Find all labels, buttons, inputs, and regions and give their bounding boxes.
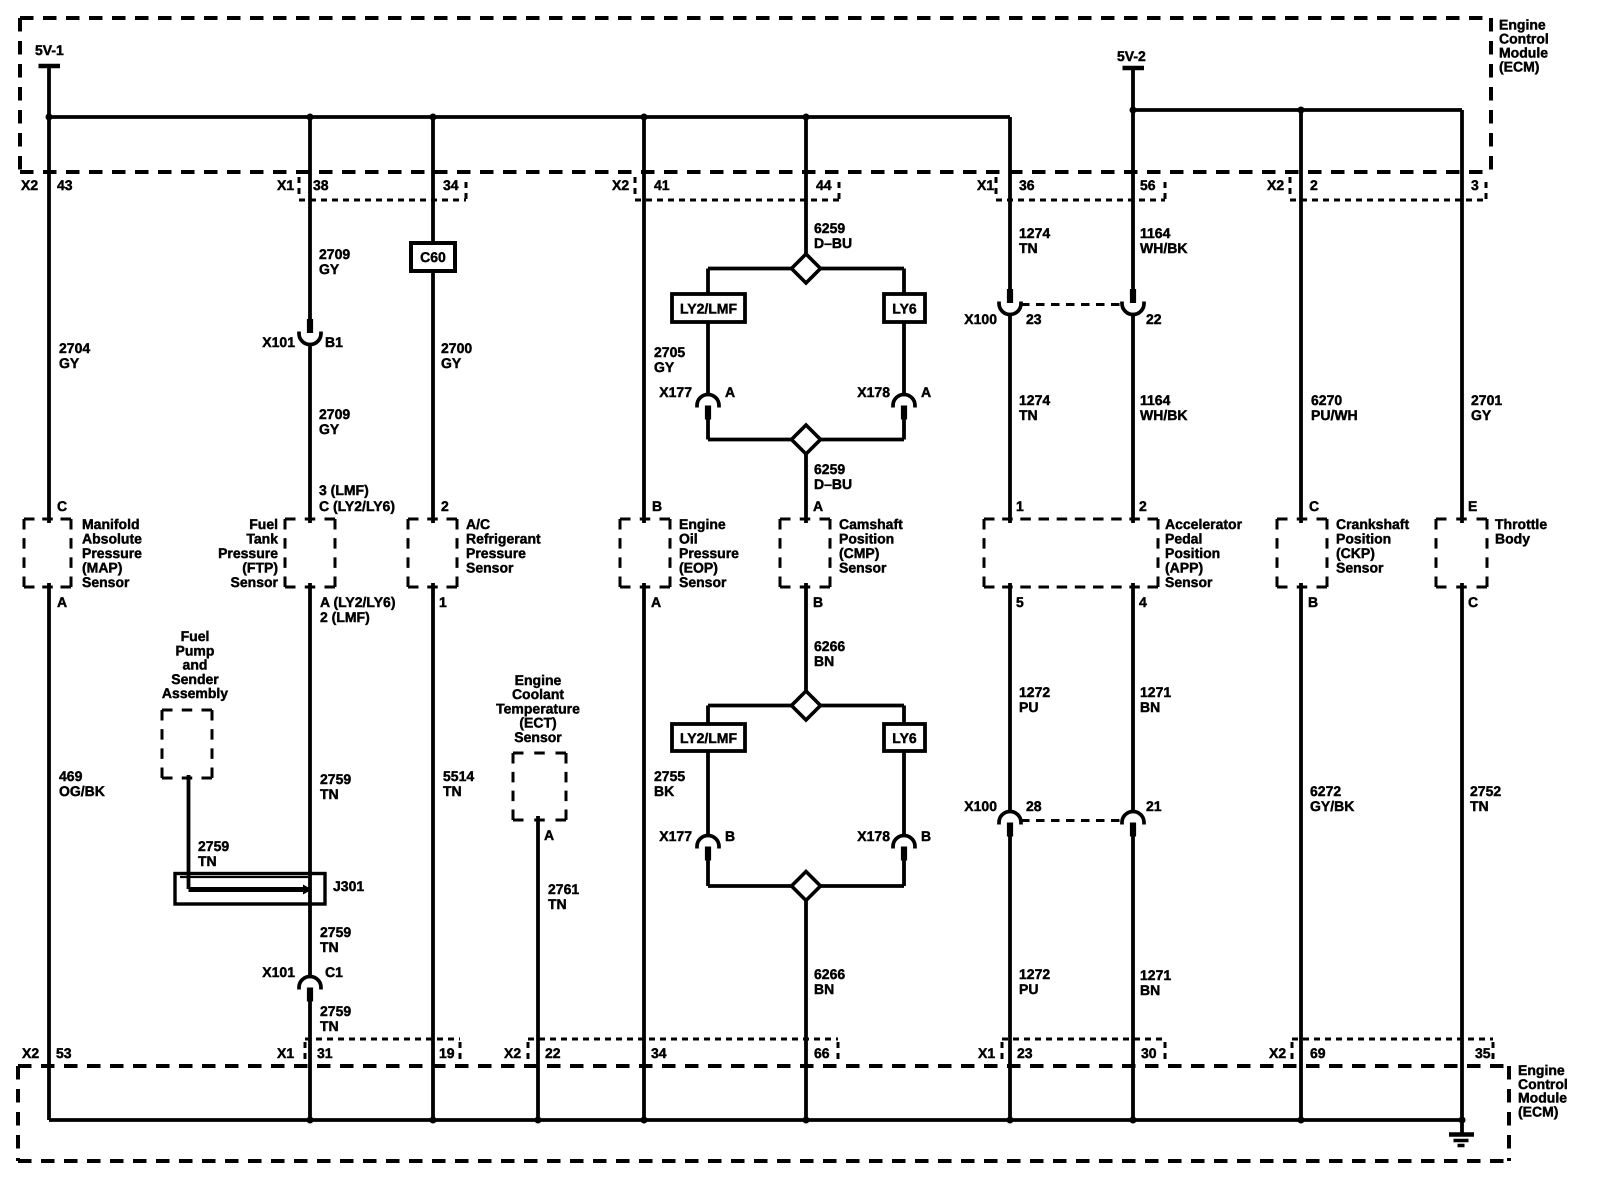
- svg-text:PU: PU: [1019, 981, 1038, 997]
- svg-text:B: B: [813, 594, 823, 610]
- svg-text:B: B: [725, 828, 735, 844]
- svg-text:2: 2: [1139, 498, 1147, 514]
- svg-text:2700: 2700: [441, 340, 472, 356]
- svg-text:D–BU: D–BU: [814, 476, 852, 492]
- svg-text:2761: 2761: [548, 881, 579, 897]
- svg-text:BK: BK: [654, 783, 674, 799]
- svg-text:Sensor: Sensor: [839, 560, 887, 576]
- svg-text:A (LY2/LY6): A (LY2/LY6): [320, 594, 395, 610]
- svg-text:1274: 1274: [1019, 392, 1050, 408]
- svg-text:23: 23: [1017, 1045, 1033, 1061]
- svg-text:TN: TN: [548, 896, 567, 912]
- svg-text:X2: X2: [612, 177, 629, 193]
- svg-text:34: 34: [651, 1045, 667, 1061]
- svg-text:1: 1: [439, 594, 447, 610]
- svg-text:BN: BN: [814, 653, 834, 669]
- svg-text:5514: 5514: [443, 768, 474, 784]
- svg-text:Body: Body: [1495, 531, 1530, 547]
- svg-text:BN: BN: [814, 981, 834, 997]
- svg-text:X1: X1: [978, 1045, 995, 1061]
- svg-text:6272: 6272: [1310, 783, 1341, 799]
- svg-text:19: 19: [439, 1045, 455, 1061]
- svg-text:OG/BK: OG/BK: [59, 783, 105, 799]
- svg-text:B: B: [652, 498, 662, 514]
- svg-text:1: 1: [1016, 498, 1024, 514]
- svg-text:WH/BK: WH/BK: [1140, 240, 1187, 256]
- svg-text:2755: 2755: [654, 768, 685, 784]
- svg-text:X101: X101: [262, 334, 295, 350]
- svg-text:22: 22: [1146, 311, 1162, 327]
- svg-text:2: 2: [1310, 177, 1318, 193]
- svg-text:3 (LMF): 3 (LMF): [319, 482, 369, 498]
- svg-text:GY: GY: [654, 359, 675, 375]
- svg-text:X100: X100: [964, 798, 997, 814]
- svg-text:1272: 1272: [1019, 966, 1050, 982]
- svg-text:TN: TN: [320, 939, 339, 955]
- svg-text:J301: J301: [333, 878, 364, 894]
- svg-text:WH/BK: WH/BK: [1140, 407, 1187, 423]
- svg-text:LY6: LY6: [892, 730, 917, 746]
- svg-text:GY: GY: [319, 261, 340, 277]
- svg-text:Sensor: Sensor: [1165, 574, 1213, 590]
- svg-text:6266: 6266: [814, 638, 845, 654]
- svg-text:(ECM): (ECM): [1518, 1103, 1558, 1119]
- svg-text:2759: 2759: [320, 1003, 351, 1019]
- svg-text:6259: 6259: [814, 461, 845, 477]
- svg-text:Sensor: Sensor: [1336, 560, 1384, 576]
- svg-text:X2: X2: [1267, 177, 1284, 193]
- svg-text:3: 3: [1471, 177, 1479, 193]
- svg-text:C60: C60: [420, 249, 446, 265]
- svg-text:GY: GY: [1471, 407, 1492, 423]
- svg-text:4: 4: [1139, 594, 1147, 610]
- svg-text:A: A: [544, 827, 554, 843]
- svg-text:(ECM): (ECM): [1499, 59, 1539, 75]
- svg-text:5: 5: [1016, 594, 1024, 610]
- svg-text:6259: 6259: [814, 220, 845, 236]
- svg-text:44: 44: [816, 177, 832, 193]
- svg-text:1164: 1164: [1140, 392, 1171, 408]
- svg-text:22: 22: [545, 1045, 561, 1061]
- svg-text:2709: 2709: [319, 406, 350, 422]
- svg-text:31: 31: [317, 1045, 333, 1061]
- svg-text:2709: 2709: [319, 246, 350, 262]
- svg-text:1164: 1164: [1140, 225, 1171, 241]
- svg-text:Assembly: Assembly: [162, 685, 228, 701]
- svg-text:E: E: [1468, 498, 1477, 514]
- svg-text:469: 469: [59, 768, 83, 784]
- svg-text:2759: 2759: [198, 838, 229, 854]
- svg-text:X178: X178: [857, 384, 890, 400]
- svg-text:A: A: [57, 594, 67, 610]
- svg-text:GY: GY: [319, 421, 340, 437]
- svg-text:43: 43: [57, 177, 73, 193]
- svg-text:X2: X2: [22, 1045, 39, 1061]
- svg-text:X178: X178: [857, 828, 890, 844]
- svg-text:6266: 6266: [814, 966, 845, 982]
- svg-text:1274: 1274: [1019, 225, 1050, 241]
- svg-text:X101: X101: [262, 964, 295, 980]
- svg-text:BN: BN: [1140, 699, 1160, 715]
- svg-text:C (LY2/LY6): C (LY2/LY6): [319, 498, 395, 514]
- svg-text:Sensor: Sensor: [679, 574, 727, 590]
- svg-text:2701: 2701: [1471, 392, 1502, 408]
- svg-text:56: 56: [1140, 177, 1156, 193]
- svg-text:A: A: [651, 594, 661, 610]
- svg-text:6270: 6270: [1311, 392, 1342, 408]
- svg-text:PU: PU: [1019, 699, 1038, 715]
- svg-text:TN: TN: [320, 1018, 339, 1034]
- svg-text:23: 23: [1026, 311, 1042, 327]
- svg-text:TN: TN: [1019, 240, 1038, 256]
- svg-text:2 (LMF): 2 (LMF): [320, 609, 370, 625]
- svg-text:B: B: [1308, 594, 1318, 610]
- svg-text:66: 66: [814, 1045, 830, 1061]
- svg-text:C1: C1: [325, 964, 343, 980]
- svg-text:28: 28: [1026, 798, 1042, 814]
- svg-text:1272: 1272: [1019, 684, 1050, 700]
- svg-text:X1: X1: [277, 177, 294, 193]
- svg-text:TN: TN: [198, 853, 217, 869]
- svg-text:TN: TN: [443, 783, 462, 799]
- svg-text:GY: GY: [59, 355, 80, 371]
- svg-text:30: 30: [1141, 1045, 1157, 1061]
- svg-text:B: B: [921, 828, 931, 844]
- svg-text:41: 41: [654, 177, 670, 193]
- svg-text:2: 2: [441, 498, 449, 514]
- svg-text:21: 21: [1146, 798, 1162, 814]
- svg-text:A: A: [725, 384, 735, 400]
- svg-text:LY6: LY6: [892, 301, 917, 317]
- svg-text:B1: B1: [325, 334, 343, 350]
- svg-text:C: C: [1309, 498, 1319, 514]
- svg-text:2759: 2759: [320, 924, 351, 940]
- svg-text:X2: X2: [1269, 1045, 1286, 1061]
- svg-text:1271: 1271: [1140, 684, 1171, 700]
- svg-text:BN: BN: [1140, 982, 1160, 998]
- svg-text:C: C: [1468, 594, 1478, 610]
- svg-text:69: 69: [1310, 1045, 1326, 1061]
- svg-text:D–BU: D–BU: [814, 235, 852, 251]
- svg-text:X2: X2: [21, 177, 38, 193]
- svg-text:GY: GY: [441, 355, 462, 371]
- svg-text:53: 53: [56, 1045, 72, 1061]
- svg-text:LY2/LMF: LY2/LMF: [680, 730, 737, 746]
- svg-text:34: 34: [443, 177, 459, 193]
- svg-text:C: C: [57, 498, 67, 514]
- svg-text:GY/BK: GY/BK: [1310, 798, 1354, 814]
- svg-text:Sensor: Sensor: [466, 560, 514, 576]
- svg-text:TN: TN: [1019, 407, 1038, 423]
- svg-text:1271: 1271: [1140, 967, 1171, 983]
- svg-text:X2: X2: [504, 1045, 521, 1061]
- svg-text:5V-1: 5V-1: [35, 42, 64, 58]
- svg-text:PU/WH: PU/WH: [1311, 407, 1358, 423]
- svg-text:38: 38: [313, 177, 329, 193]
- svg-text:Sensor: Sensor: [231, 574, 279, 590]
- svg-text:TN: TN: [320, 786, 339, 802]
- svg-text:Sensor: Sensor: [82, 574, 130, 590]
- svg-text:35: 35: [1475, 1045, 1491, 1061]
- svg-text:X177: X177: [659, 384, 692, 400]
- svg-text:2759: 2759: [320, 771, 351, 787]
- svg-text:A: A: [813, 498, 823, 514]
- svg-text:Sensor: Sensor: [514, 729, 562, 745]
- svg-text:TN: TN: [1470, 798, 1489, 814]
- svg-text:X100: X100: [964, 311, 997, 327]
- svg-text:36: 36: [1019, 177, 1035, 193]
- svg-text:X1: X1: [277, 1045, 294, 1061]
- svg-text:X177: X177: [659, 828, 692, 844]
- svg-text:2704: 2704: [59, 340, 90, 356]
- svg-text:2752: 2752: [1470, 783, 1501, 799]
- svg-text:5V-2: 5V-2: [1117, 48, 1146, 64]
- svg-text:A: A: [921, 384, 931, 400]
- svg-text:X1: X1: [977, 177, 994, 193]
- svg-text:LY2/LMF: LY2/LMF: [680, 301, 737, 317]
- svg-text:2705: 2705: [654, 344, 685, 360]
